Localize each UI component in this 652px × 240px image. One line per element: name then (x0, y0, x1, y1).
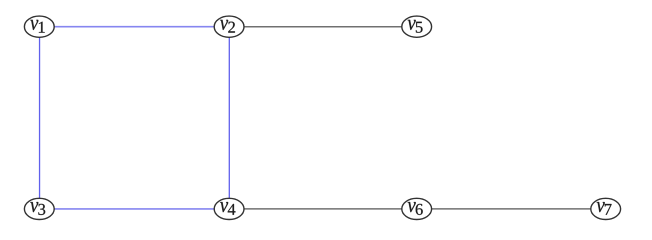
node v6 (402, 198, 432, 219)
wire edge v3-v4 (blue) (39, 208, 229, 210)
wire edge v1-v3 (blue) (39, 27, 41, 209)
wire edge v4-v6 (black) (229, 208, 417, 210)
wire edge v6-v7 (black) (417, 208, 606, 210)
node v7 (591, 198, 621, 219)
wire edge v2-v5 (black) (229, 26, 417, 28)
wire edge v2-v4 (blue) (228, 27, 230, 209)
node v2 (214, 16, 244, 37)
node v5 (402, 16, 432, 37)
node v1 (24, 16, 54, 37)
wire edge v1-v2 (blue) (39, 26, 229, 28)
node v3 (24, 198, 54, 219)
node v4 (214, 198, 244, 219)
